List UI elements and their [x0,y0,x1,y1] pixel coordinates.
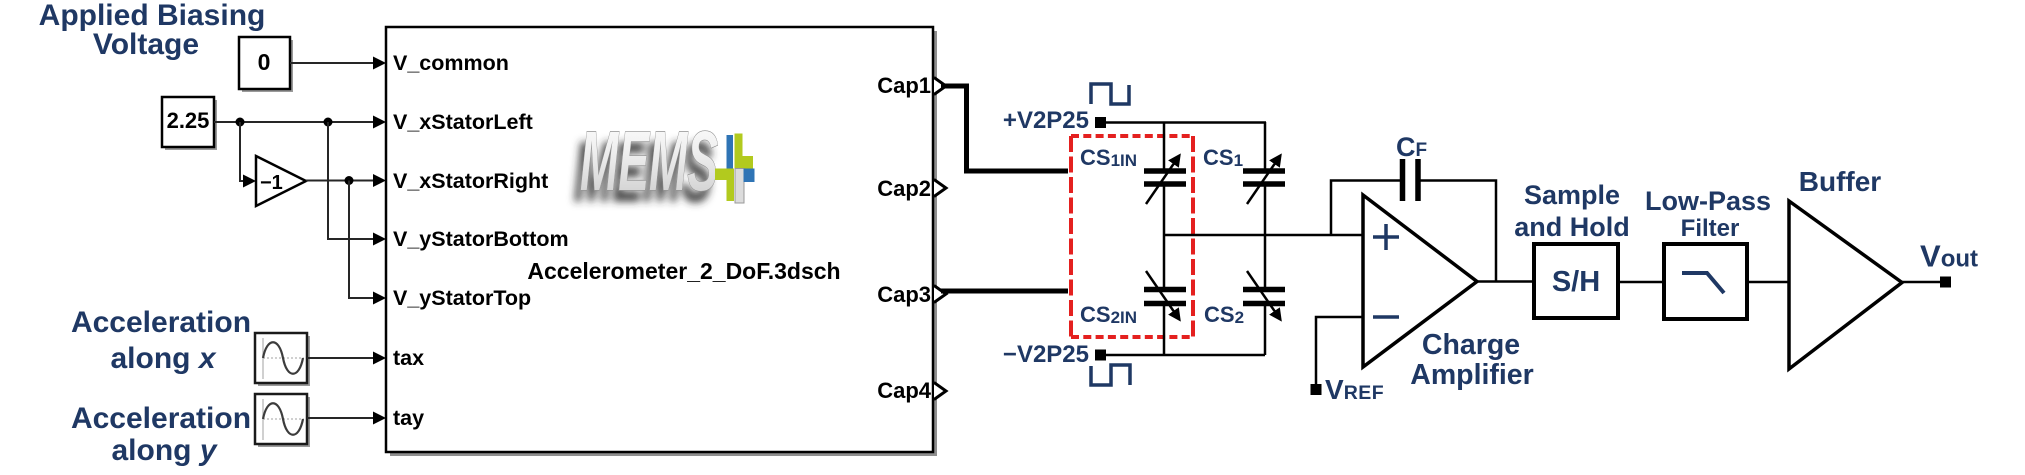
wire down to gain input [240,122,243,181]
node square Vout [1940,277,1951,288]
svg-text:Acceleration: Acceleration [71,306,251,339]
svg-text:V_xStatorRight: V_xStatorRight [393,169,548,193]
svg-text:tay: tay [393,406,424,430]
svg-text:V_yStatorBottom: V_yStatorBottom [393,227,569,251]
capacitor CS2 [1243,271,1285,319]
arrowhead V_xStatorLeft [373,116,386,129]
capacitor CS1IN [1144,156,1186,204]
capacitor CF [1403,159,1419,201]
wire right column vertical [1264,122,1267,355]
svg-text:Charge: Charge [1422,329,1520,361]
output port chevron Cap2 [934,180,946,197]
svg-text:Low-Pass: Low-Pass [1645,186,1771,216]
wire S/H to LPF [1618,281,1664,284]
label Acceleration along y [71,402,251,467]
wire gain to V_xStatorRight [306,180,373,182]
svg-text:V_common: V_common [393,51,509,75]
wire to V_yStatorTop [349,181,373,299]
node square -V2P25 [1095,350,1106,361]
wire top rail [1106,121,1266,124]
op-amp U1 [1363,195,1477,367]
svg-text:Sample: Sample [1524,180,1620,210]
svg-text:tax: tax [393,346,424,370]
output port chevron Cap4 [934,383,946,400]
svg-text:VREF: VREF [1325,374,1384,405]
label Sample and Hold [1514,180,1630,242]
logo plus silver vertical bottom [735,169,744,204]
gain block -1 [256,156,306,206]
arrowhead tax [373,352,386,365]
output port chevron Cap3 [934,286,946,303]
svg-text:CS1IN: CS1IN [1080,145,1137,170]
block low-pass filter [1664,244,1747,319]
sine source block tay [255,394,310,447]
svg-text:Vout: Vout [1920,239,1978,274]
svg-text:Voltage: Voltage [93,28,199,61]
wire LPF to buffer [1747,281,1789,284]
wire inverting input [1316,317,1363,385]
node square VREF [1311,384,1322,395]
svg-text:V_yStatorTop: V_yStatorTop [393,286,531,310]
svg-text:CF: CF [1396,132,1427,162]
node junction dot B [324,118,333,127]
arrowhead V_yStatorBottom [373,233,386,246]
wire feedback right [1420,181,1496,283]
buffer amplifier [1789,201,1902,369]
svg-text:MEMS: MEMS [580,114,718,208]
clock waveform top [1091,84,1129,104]
svg-text:along x: along x [110,342,216,375]
svg-text:and Hold: and Hold [1514,212,1630,242]
thick wire Cap3 to CS2IN [941,289,1068,294]
logo plus green vertical top [735,134,743,170]
svg-text:0: 0 [258,49,271,75]
wire 0 to V_common [290,62,373,64]
node junction dot A [236,118,245,127]
thick wire Cap1 to CS1IN [941,86,1068,171]
svg-text:CS2: CS2 [1204,302,1244,327]
wire sine to tax [307,357,373,359]
wire sine to tay [307,417,373,419]
arrowhead V_common [373,57,386,70]
clock waveform bottom [1091,365,1130,385]
svg-text:Accelerometer_2_DoF.3dsch: Accelerometer_2_DoF.3dsch [527,258,840,284]
capacitor CS2IN [1144,271,1186,319]
svg-text:Cap4: Cap4 [877,378,932,403]
svg-text:Cap3: Cap3 [877,282,931,307]
arrowhead V_yStatorTop [373,292,386,305]
svg-text:−1: −1 [260,172,283,194]
wire left column vertical [1163,122,1166,355]
logo plus blue vertical top [727,135,734,169]
svg-text:+V2P25: +V2P25 [1003,107,1089,134]
sine source block tax [255,333,310,386]
svg-text:S/H: S/H [1552,266,1600,298]
arrowhead V_xStatorRight [373,174,386,187]
svg-text:Acceleration: Acceleration [71,402,251,435]
constant block 0 [239,37,293,92]
wire op-amp output to S/H [1477,280,1534,283]
label Applied Biasing Voltage [39,0,266,61]
output port chevron Cap1 [934,78,946,95]
wire middle rail to op-amp [1164,234,1363,237]
svg-text:CS2IN: CS2IN [1080,302,1137,327]
label Low-Pass Filter [1645,186,1771,242]
wire bottom rail [1106,354,1265,357]
svg-text:Cap2: Cap2 [877,176,931,201]
svg-text:Cap1: Cap1 [877,73,931,98]
svg-text:V_xStatorLeft: V_xStatorLeft [393,110,533,134]
label Charge Amplifier [1410,329,1534,391]
logo plus green arm left [715,169,727,181]
constant block 2.25 [162,97,217,150]
svg-text:along y: along y [111,434,217,467]
svg-text:−V2P25: −V2P25 [1003,341,1089,368]
block S/H [1534,244,1618,318]
logo plus green arm right [743,156,754,169]
svg-text:Filter: Filter [1681,215,1740,242]
wire 2.25 to V_xStatorLeft [214,121,373,123]
logo plus blue square bottom right [744,169,755,183]
logo plus green vertical bottom [727,169,735,202]
red dashed box [1071,136,1193,337]
node square +V2P25 [1095,117,1106,128]
wire buffer to output [1902,281,1941,284]
svg-text:Amplifier: Amplifier [1410,359,1534,391]
wire feedback left [1331,181,1400,236]
capacitor CS1 [1243,156,1285,204]
svg-text:2.25: 2.25 [167,108,210,133]
node junction dot C [345,176,354,185]
MEMS+ logo [580,114,755,208]
arrowhead gain input [243,175,256,188]
wire to V_yStatorBottom [328,122,373,239]
arrowhead tay [373,412,386,425]
svg-text:CS1: CS1 [1203,145,1243,170]
svg-text:Buffer: Buffer [1799,166,1882,197]
MEMS block Accelerometer_2_DoF.3dsch [386,27,937,456]
label Acceleration along x [71,306,251,375]
